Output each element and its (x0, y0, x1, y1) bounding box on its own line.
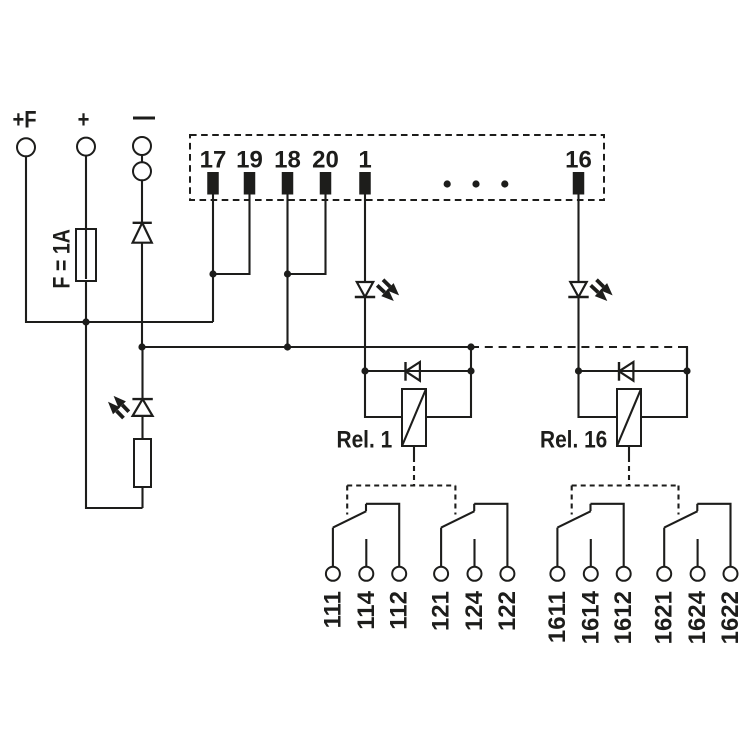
junction node A (+ bus) (82, 318, 89, 325)
wire freewheel diode line Rel. 1 (365, 370, 471, 372)
svg-text:124: 124 (461, 590, 488, 631)
connector block outline (dashed) (190, 135, 604, 200)
fuse F1 (F = 1A) (85, 231, 87, 279)
terminal 122 (500, 567, 514, 581)
terminal 1612 (617, 567, 631, 581)
wire − bus dashed continuation (471, 346, 687, 348)
junction pin 18 on − bus (284, 343, 291, 350)
wire between − terminals (141, 146, 143, 171)
terminal 1624 (691, 567, 705, 581)
svg-text:1621: 1621 (651, 591, 678, 644)
terminal 124 (468, 567, 482, 581)
svg-text:F = 1A: F = 1A (48, 229, 75, 289)
terminal 1622 (724, 567, 738, 581)
relay coil Rel. 16 (617, 389, 641, 446)
wire from +F terminal down and right to supply bus (26, 156, 213, 322)
junction coil right node Rel. 1 (467, 367, 474, 374)
svg-text:+F: +F (13, 106, 37, 133)
wire resistor bottom lead (141, 487, 143, 508)
junction coil left node Rel. 1 (361, 367, 368, 374)
terminal 1614 (584, 567, 598, 581)
LED status Rel. 16 (570, 282, 586, 297)
LED emission arrows Rel. 1 (383, 280, 390, 287)
LED emission arrows Rel. 16 (597, 280, 604, 287)
terminal − upper (133, 137, 151, 155)
terminal 1611 (550, 567, 564, 581)
wire right node down Rel. 1 (470, 347, 472, 371)
wire coil armature stub Rel. 1 (413, 446, 415, 457)
svg-text:111: 111 (319, 591, 346, 628)
dashed actuator linkage 1 (413, 457, 415, 486)
svg-text:112: 112 (386, 591, 413, 630)
terminal + (77, 138, 95, 156)
wire coil right lead Rel. 16 (641, 371, 687, 417)
wire LED to node B (141, 347, 143, 399)
wire right node down Rel. 16 (686, 347, 688, 371)
wire coil left lead Rel. 16 (579, 371, 618, 417)
svg-text:Rel. 16: Rel. 16 (540, 426, 607, 453)
terminal 1621 (657, 567, 671, 581)
wire LED to coil node Rel. 16 (577, 297, 579, 371)
svg-text:16: 16 (565, 147, 592, 174)
wire coil right lead Rel. 1 (426, 371, 471, 417)
wire from − terminal to diode D1 (141, 180, 143, 224)
wire coil armature stub Rel. 16 (628, 446, 630, 457)
wire pin to LED Rel. 16 (577, 195, 579, 283)
svg-text:122: 122 (494, 591, 521, 631)
freewheel diode Rel. 16 (618, 362, 620, 381)
svg-text:114: 114 (353, 590, 380, 629)
svg-text:1612: 1612 (610, 591, 637, 644)
terminal 121 (434, 567, 448, 581)
wire freewheel diode line Rel. 16 (579, 370, 688, 372)
svg-text:121: 121 (428, 591, 455, 631)
terminal 112 (392, 567, 406, 581)
svg-text:20: 20 (312, 147, 339, 174)
wire resistor to LED (141, 416, 143, 439)
pin 1 (359, 172, 371, 195)
wire coil left lead Rel. 1 (365, 371, 402, 417)
wire from + terminal to fuse (85, 156, 87, 231)
svg-text:1: 1 (358, 147, 371, 174)
diode D1 reverse-polarity (133, 222, 152, 224)
wire pin to LED Rel. 1 (364, 195, 366, 283)
ellipsis dots for pins 2..15 (444, 180, 451, 187)
svg-text:1622: 1622 (717, 591, 744, 644)
LED status Rel. 1 (357, 282, 373, 297)
changeover contact for 1621/1624/1622 (663, 528, 665, 567)
terminal 114 (359, 567, 373, 581)
wire + branch down (86, 322, 143, 508)
svg-text:1614: 1614 (577, 590, 604, 644)
junction node B (− bus) (138, 343, 145, 350)
dashed actuator linkage 16 (628, 457, 630, 486)
junction pins 17/19 (209, 270, 216, 277)
junction coil right node Rel. 16 (683, 367, 690, 374)
pin 17 (207, 172, 219, 195)
svg-text:1611: 1611 (544, 591, 571, 643)
junction coil right node on bus Rel. 1 (467, 343, 474, 350)
svg-text:19: 19 (236, 147, 263, 174)
pin 20 (320, 172, 332, 195)
LED V1 emission arrows (122, 405, 129, 412)
pin 19 (244, 172, 256, 195)
relay coil Rel. 1 (402, 389, 426, 446)
wire − bus corner down to Rel.16 (686, 346, 688, 371)
pin 18 (282, 172, 294, 195)
changeover contact for 1611/1614/1612 (556, 528, 558, 567)
resistor R1 (134, 439, 151, 487)
freewheel diode Rel. 1 (404, 362, 406, 381)
terminal 111 (326, 567, 340, 581)
wire pin 18 to − bus (286, 195, 288, 348)
svg-text:18: 18 (274, 147, 301, 174)
wire − bus (142, 346, 471, 348)
svg-text:1624: 1624 (684, 590, 711, 644)
wire LED to coil node Rel. 1 (364, 297, 366, 371)
svg-text:+: + (78, 106, 90, 133)
LED V1 power indicator (133, 399, 153, 416)
wire from fuse to node A (85, 281, 87, 322)
junction coil left node Rel. 16 (575, 367, 582, 374)
wire from D1 to node B (141, 243, 143, 347)
pin 16 (573, 172, 585, 195)
wire pin 19 (213, 195, 250, 275)
terminal +F (17, 138, 35, 156)
terminal − lower (133, 162, 151, 180)
label − (minus) (133, 117, 155, 120)
changeover contact for 111/114/112 (332, 528, 334, 567)
changeover contact for 121/124/122 (440, 528, 442, 567)
svg-text:17: 17 (200, 147, 227, 174)
wire pin 17 to + bus (212, 195, 214, 323)
wire pin 20 (288, 195, 326, 275)
junction pins 18/20 (284, 270, 291, 277)
svg-text:Rel. 1: Rel. 1 (337, 426, 393, 453)
